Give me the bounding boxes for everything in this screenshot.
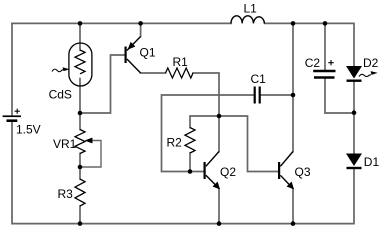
svg-text:R2: R2 <box>167 136 183 150</box>
svg-text:1.5V: 1.5V <box>16 123 41 137</box>
svg-text:C1: C1 <box>251 72 267 86</box>
svg-text:VR1: VR1 <box>53 137 77 151</box>
svg-text:CdS: CdS <box>49 87 72 101</box>
svg-text:C2: C2 <box>305 56 321 70</box>
svg-text:D1: D1 <box>364 155 380 169</box>
svg-text:D2: D2 <box>363 56 379 70</box>
svg-text:R3: R3 <box>58 187 74 201</box>
svg-text:L1: L1 <box>244 1 258 15</box>
svg-text:Q3: Q3 <box>295 165 311 179</box>
svg-text:Q2: Q2 <box>220 165 236 179</box>
svg-text:Q1: Q1 <box>140 46 156 60</box>
svg-text:R1: R1 <box>173 55 189 69</box>
